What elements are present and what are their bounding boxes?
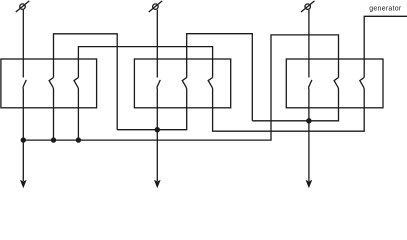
junction dot: S1 pole2 / bus <box>51 137 56 142</box>
wire W3: S2 pole2 top up, over and down between S2 and S3 <box>187 34 253 121</box>
switch contact S3 pole3 blade with barb <box>360 78 364 88</box>
switch contact S2 pole2 blade with barb <box>182 78 186 88</box>
switch contact S2 pole1 blade <box>157 80 160 88</box>
source terminal T2 (circle with slash) <box>149 1 163 12</box>
switch box S3 <box>286 59 383 108</box>
wire: S1 pole1 bottom lead down to load arrow 1 <box>22 87 24 181</box>
svg-text:generator: generator <box>369 5 402 12</box>
wire W2: S1 pole3 top over to S2 pole3 top <box>78 47 212 78</box>
wire: bottom bus from S1 poles up to W4 over to S3 pole2 top <box>23 35 338 140</box>
switch contact S2 pole3 blade with barb <box>208 78 212 88</box>
wire A: cross tie to S2 pole2 bottom lead <box>117 87 187 129</box>
wire W1: S1 pole2 top up, over and down between S1 and S2 <box>54 34 118 130</box>
wire B: S2 pole3 bottom lead to S3 pole3 bottom lead <box>212 87 364 131</box>
switch contact S3 pole2 blade with barb <box>334 78 338 88</box>
switch contact S1 pole3 blade with barb <box>74 78 78 88</box>
wire: S1 pole2 bottom lead to bus <box>52 87 54 140</box>
junction dot: feeder2 / wire A <box>155 127 160 132</box>
switch contact S1 pole2 blade with barb <box>49 78 53 88</box>
junction dot: feeder3 / wire C <box>306 118 311 123</box>
wire: feeder 3 drop from T3 to S3 pole1 <box>308 10 310 78</box>
junction dot: S1 pole3 / bus <box>76 137 81 142</box>
arrow head: load feeder 1 <box>20 180 27 188</box>
wire: feeder 1 drop from T1 to S1 pole1 <box>22 10 24 78</box>
arrow head: load feeder 2 <box>154 180 161 188</box>
source terminal T1 (circle with slash) <box>16 1 29 12</box>
wire C: cross tie to S3 pole2 bottom lead <box>252 87 338 120</box>
wire: S2 pole1 bottom lead down to load arrow 2 <box>156 87 158 181</box>
source terminal T3 (circle with slash) <box>301 1 315 12</box>
wire: generator lead-in to S3 pole3 top <box>364 16 407 77</box>
arrow head: load feeder 3 <box>306 180 313 188</box>
wire: feeder 2 drop from T2 to S2 pole1 <box>156 10 158 78</box>
switch contact S3 pole1 blade <box>309 80 312 88</box>
switch box S2 <box>134 59 230 108</box>
junction dot: feeder1 / bottom bus <box>21 137 26 142</box>
switch box S1 <box>1 59 97 108</box>
switch contact S1 pole1 blade <box>23 80 26 88</box>
wire: S3 pole1 bottom lead down to load arrow 3 <box>308 87 310 181</box>
wire: S1 pole3 bottom lead to bus <box>77 87 79 140</box>
